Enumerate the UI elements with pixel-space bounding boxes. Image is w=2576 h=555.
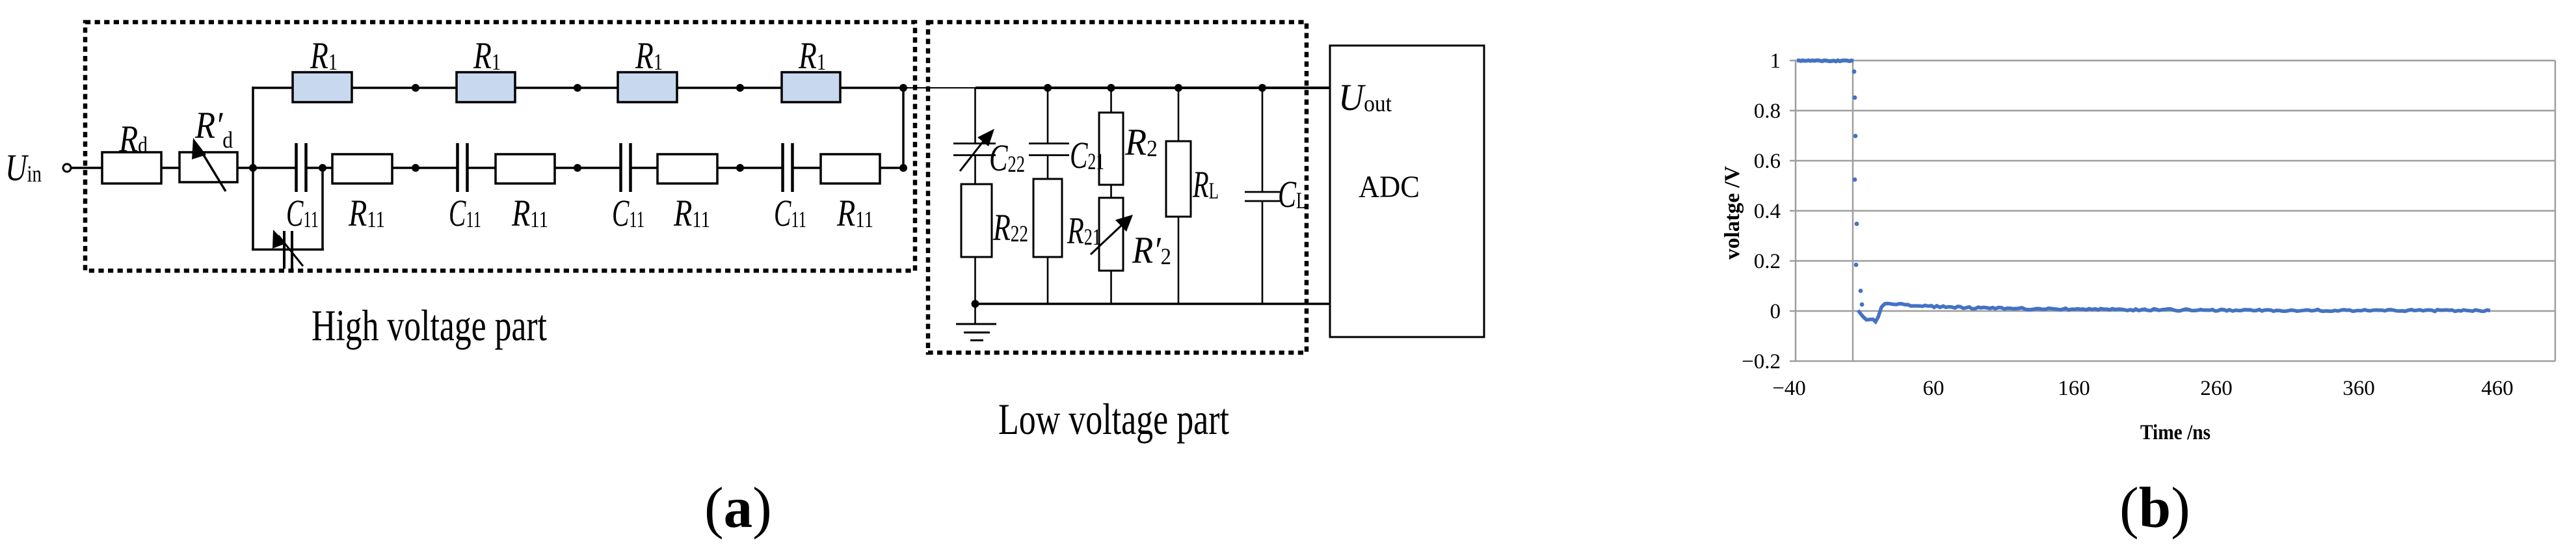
node dot LV rail 4 [1258, 84, 1266, 92]
curve falling samples [1852, 70, 1865, 307]
svg-text:0.8: 0.8 [1754, 100, 1781, 123]
ground [956, 304, 996, 340]
capacitor C11 stage3 [621, 143, 631, 192]
svg-text:1: 1 [1770, 49, 1781, 73]
wire mid rail segment 1 [71, 167, 296, 169]
wire mid rail segment 2 [306, 167, 457, 169]
curve flat top at 1V [1797, 61, 1853, 62]
resistor Rd [102, 152, 161, 183]
wire loop right side [321, 168, 324, 250]
arrow of R'2 [1091, 215, 1133, 254]
resistor R1 stage3 [618, 72, 677, 102]
resistor R11 stage3 [657, 154, 717, 183]
node dot LV rail 3 [1175, 84, 1182, 92]
branch R2/R'2 vertical wires [1110, 88, 1112, 304]
curve settling tail [1858, 303, 2490, 321]
node dot LV rail 1 [1044, 84, 1052, 92]
resistor R11 stage1 [332, 154, 392, 183]
node dot mid rail D [574, 164, 581, 172]
svg-text:460: 460 [2481, 377, 2514, 400]
node dot mid rail A [249, 164, 257, 172]
node dot mid rail F [899, 164, 907, 172]
variable resistor R'd [179, 152, 237, 182]
wire LV bottom rail [975, 303, 1330, 305]
chart right border [2555, 61, 2556, 361]
chart vertical gridline at t=0 [1852, 61, 1854, 361]
node dot mid rail B [319, 164, 326, 172]
branch CL vertical wires [1262, 88, 1264, 304]
node dot LV rail 2 [1108, 84, 1115, 92]
branch C21/R21 vertical wires [1047, 88, 1049, 304]
variable resistor R'2 [1099, 198, 1123, 271]
branch RL vertical wires [1178, 88, 1180, 304]
resistor R22 [961, 184, 992, 257]
input terminal Uin [63, 164, 71, 172]
svg-text:60: 60 [1923, 377, 1945, 400]
resistor R1 stage2 [457, 72, 515, 102]
resistor R1 stage4 [782, 72, 840, 102]
wire mid rail segment 5 [793, 167, 903, 169]
svg-text:Time /ns: Time /ns [2140, 421, 2211, 444]
variable capacitor C22 [953, 144, 996, 156]
capacitor C11 stage2 [458, 143, 468, 192]
chart y axis [1795, 61, 1797, 361]
wire loop left side [252, 168, 254, 250]
node dot ground [972, 300, 979, 308]
svg-text:160: 160 [2058, 377, 2090, 400]
svg-text:360: 360 [2343, 377, 2375, 400]
svg-text:260: 260 [2200, 377, 2233, 400]
ADC box [1330, 46, 1484, 337]
node dot mid rail E [736, 164, 744, 172]
capacitor CL [1245, 192, 1280, 201]
svg-text:(b): (b) [2119, 476, 2190, 540]
svg-text:0.6: 0.6 [1754, 150, 1781, 173]
chart y axis ticks [1790, 61, 1796, 361]
wire link HV to LV [906, 87, 976, 88]
node dot top rail 1 [412, 84, 419, 92]
resistor R11 stage4 [821, 154, 880, 183]
wire riser at node A [252, 87, 254, 168]
arrow of R'd [192, 138, 226, 191]
capacitor C21 [1029, 144, 1069, 156]
wire mid rail segment 4 [631, 167, 782, 169]
wire LV top rail [976, 87, 1330, 89]
chart x tick labels [1772, 377, 2514, 400]
node dot mid rail C [412, 164, 419, 172]
variable capacitor trimmer [284, 231, 292, 269]
svg-text:ADC: ADC [1359, 170, 1420, 204]
resistor R1 stage1 [293, 72, 352, 102]
arrow of C22 [960, 129, 994, 171]
svg-text:Low voltage part: Low voltage part [998, 394, 1229, 444]
capacitor C11 stage1 [297, 143, 306, 192]
svg-text:High voltage part: High voltage part [312, 301, 547, 350]
wire mid rail segment 3 [468, 167, 620, 169]
resistor R2 [1099, 113, 1123, 185]
resistor R21 [1033, 179, 1062, 257]
wire top rail HV [253, 87, 906, 89]
LV dashed box [928, 22, 1307, 353]
node dot top rail 2 [574, 84, 581, 92]
chart y tick labels [1742, 49, 1781, 373]
wire right connector top-mid [902, 88, 905, 168]
svg-text:0.2: 0.2 [1754, 250, 1781, 273]
arrow of trimmer [272, 230, 303, 266]
resistor R11 stage2 [496, 154, 555, 183]
node dot top rail 4 [899, 84, 907, 92]
resistor RL [1166, 141, 1191, 217]
wire loop bottom [252, 249, 324, 251]
HV dashed box [85, 22, 915, 271]
svg-text:(a): (a) [704, 476, 772, 540]
branch C22/R22 vertical wires [974, 88, 976, 304]
svg-text:−0.2: −0.2 [1742, 350, 1781, 373]
chart gridlines [1796, 61, 2555, 361]
capacitor C11 stage4 [783, 143, 793, 192]
svg-text:−40: −40 [1772, 377, 1806, 400]
svg-text:0: 0 [1770, 300, 1781, 323]
node dot top rail 3 [736, 84, 744, 92]
svg-text:volatge /V: volatge /V [1721, 166, 1744, 260]
svg-text:0.4: 0.4 [1754, 200, 1781, 223]
